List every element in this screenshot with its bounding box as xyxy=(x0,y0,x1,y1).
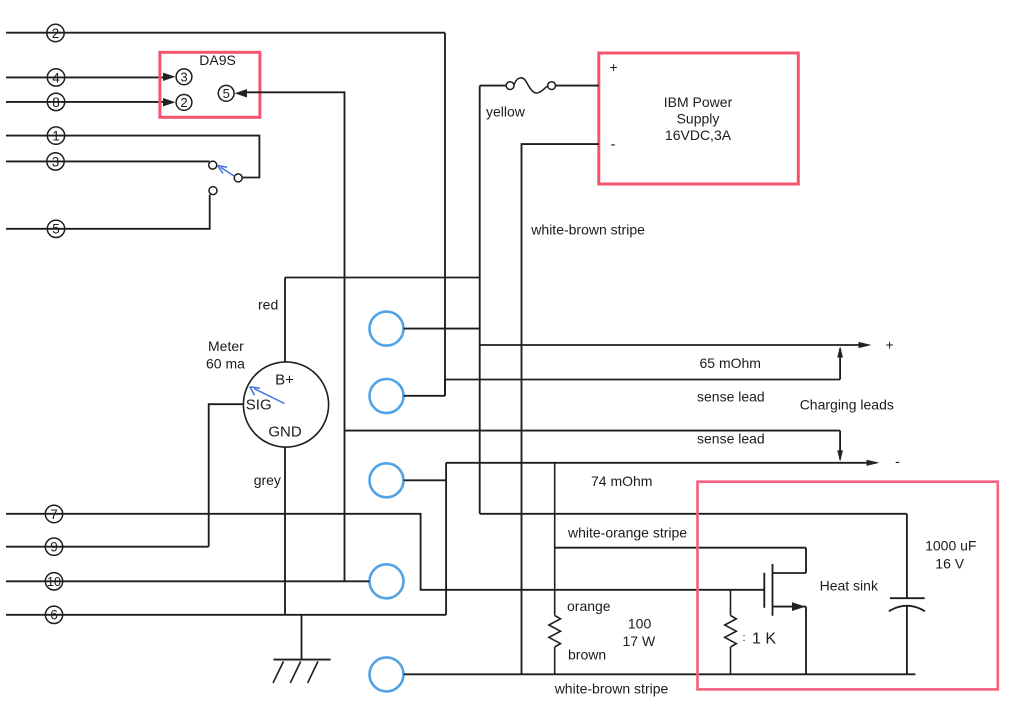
fuse right terminal circle xyxy=(548,82,556,90)
svg-text:9: 9 xyxy=(50,540,58,555)
mosfet channel bar xyxy=(772,564,774,616)
fuse element squiggle xyxy=(514,78,548,93)
svg-text:red: red xyxy=(258,296,278,312)
node terminal circle 9 xyxy=(45,538,62,555)
wire minus charging lead 74 mOhm xyxy=(446,463,876,615)
switch pole contact lower xyxy=(209,187,217,195)
node terminal circle 1 xyxy=(47,127,64,144)
svg-text:Charging leads: Charging leads xyxy=(800,396,894,412)
svg-text:white-brown stripe: white-brown stripe xyxy=(530,221,645,237)
wire supply minus white-brown down xyxy=(522,144,599,674)
svg-text:1 K: 1 K xyxy=(752,631,776,648)
arrowhead plus sense up xyxy=(837,346,843,357)
svg-text:16 V: 16 V xyxy=(935,556,964,572)
wire terminal 1 xyxy=(6,136,259,178)
fuse left terminal circle xyxy=(506,82,514,90)
svg-text:+: + xyxy=(610,59,618,75)
wire terminal 9 xyxy=(6,546,209,548)
svg-text:sense lead: sense lead xyxy=(697,389,765,405)
ground slash 1 xyxy=(273,661,284,683)
pin arrow into DA9S pin 3 xyxy=(163,73,176,81)
wire meter GND grey down xyxy=(284,448,286,615)
svg-text:3: 3 xyxy=(180,70,187,85)
ground slash 2 xyxy=(290,661,300,683)
svg-text:65 mOhm: 65 mOhm xyxy=(700,355,761,371)
wire red from meter B+ up and right xyxy=(285,278,480,362)
pin arrow into DA9S pin 5 xyxy=(235,89,248,97)
svg-text:brown: brown xyxy=(568,647,606,663)
arrowhead plus charging lead xyxy=(859,342,872,348)
terminal block circle C xyxy=(370,463,404,497)
wire plus charging lead 65 mOhm xyxy=(480,344,868,346)
switch blade blue arrow xyxy=(218,166,235,177)
switch pole contact upper xyxy=(209,161,217,169)
terminal block circle A xyxy=(370,312,404,346)
wire minus sense lead xyxy=(345,431,841,460)
capacitor top plate xyxy=(890,597,925,599)
wire terminal 3 xyxy=(6,160,210,162)
node terminal circle 10 xyxy=(45,573,62,590)
arrowhead minus sense down xyxy=(837,450,843,461)
pin circle 2 of DA9S xyxy=(176,95,192,111)
svg-text:5: 5 xyxy=(52,222,60,237)
svg-text:-: - xyxy=(611,136,616,153)
ground slash 3 xyxy=(308,661,318,683)
power supply IBM box xyxy=(599,53,799,184)
pin circle 5 of DA9S xyxy=(218,85,234,101)
ground stem wire xyxy=(301,615,303,660)
heat sink pink box xyxy=(698,482,998,690)
pin circle 3 of DA9S xyxy=(176,69,192,85)
svg-text:5: 5 xyxy=(223,86,230,101)
svg-text:sense lead: sense lead xyxy=(697,431,765,447)
wire from terminal C to minus column xyxy=(404,479,447,481)
svg-text:16VDC,3A: 16VDC,3A xyxy=(665,127,732,143)
mosfet source arrowhead xyxy=(792,602,806,611)
svg-text:yellow: yellow xyxy=(486,103,526,119)
svg-text:100: 100 xyxy=(628,616,652,632)
svg-text:8: 8 xyxy=(52,95,60,110)
svg-text:4: 4 xyxy=(52,70,60,85)
svg-text:3: 3 xyxy=(52,154,60,169)
wire terminal 6 xyxy=(6,614,446,616)
node terminal circle 6 xyxy=(45,606,62,623)
ground bar xyxy=(274,659,331,661)
wire from DA9S pin 5 to right and down xyxy=(246,92,345,581)
svg-text::: : xyxy=(743,632,746,644)
fuse right lead wire to supply plus xyxy=(556,85,599,87)
wire plus sense lead xyxy=(445,349,840,380)
svg-text:+: + xyxy=(886,337,894,353)
wire yellow vertical from fuse down xyxy=(479,86,481,514)
svg-text:7: 7 xyxy=(50,507,58,522)
connector DA9S box xyxy=(160,52,260,117)
svg-text:Meter: Meter xyxy=(208,338,244,354)
terminal block circle E xyxy=(370,657,404,691)
svg-text:GND: GND xyxy=(268,423,302,440)
arrowhead minus charging lead xyxy=(867,460,880,466)
resistor 100 ohm 17W xyxy=(549,463,561,674)
wire terminal 2 top xyxy=(6,32,445,34)
svg-text:2: 2 xyxy=(52,26,60,41)
capacitor curved plate xyxy=(889,606,925,612)
meter needle blue arrow xyxy=(250,387,285,404)
svg-text:B+: B+ xyxy=(275,372,294,389)
svg-text:60 ma: 60 ma xyxy=(206,355,245,371)
node terminal circle 5 xyxy=(47,220,64,237)
node terminal circle 7 xyxy=(45,505,62,522)
svg-text:IBM Power: IBM Power xyxy=(664,94,733,110)
svg-text:orange: orange xyxy=(567,598,611,614)
wire terminal 10 to terminal block D xyxy=(6,580,369,582)
wire meter SIG to left and down to terminal 9 xyxy=(209,404,243,547)
svg-text:white-orange stripe: white-orange stripe xyxy=(567,524,687,540)
svg-text:74 mOhm: 74 mOhm xyxy=(591,473,652,489)
fuse left lead wire xyxy=(480,85,507,87)
wire terminal 5 xyxy=(6,195,210,229)
svg-text:6: 6 xyxy=(50,608,58,623)
svg-text:Supply: Supply xyxy=(677,111,720,127)
wire white-orange stripe to mosfet drain xyxy=(555,548,806,573)
node terminal circle 4 xyxy=(47,69,64,86)
svg-text:Heat sink: Heat sink xyxy=(820,577,879,593)
capacitor bottom lead xyxy=(906,606,908,674)
node terminal circle 3 xyxy=(47,153,64,170)
svg-text:1: 1 xyxy=(52,129,60,144)
svg-text:1000 uF: 1000 uF xyxy=(925,538,976,554)
svg-text:-: - xyxy=(895,454,900,471)
terminal block circle B xyxy=(370,379,404,413)
wire from top terminal 2 down right column xyxy=(444,33,446,396)
wire terminal 8 xyxy=(6,101,166,103)
svg-text:white-brown stripe: white-brown stripe xyxy=(554,681,669,697)
switch common contact right xyxy=(234,174,242,182)
wire bottom rail white-brown stripe xyxy=(404,673,916,675)
svg-text:DA9S: DA9S xyxy=(199,52,236,68)
node terminal circle 2 xyxy=(47,24,64,41)
wire from terminal B to sense column xyxy=(404,380,445,396)
terminal block circle D xyxy=(370,564,404,598)
meter body circle xyxy=(243,362,328,447)
wire terminal 4 xyxy=(6,76,166,78)
resistor 1K xyxy=(725,590,737,675)
mosfet gate bar xyxy=(763,573,765,608)
wire from terminal A to yellow column xyxy=(404,328,480,330)
wire jog from yellow column to capacitor plus xyxy=(480,514,907,598)
svg-text:17 W: 17 W xyxy=(623,633,656,649)
pin arrow into DA9S pin 2 xyxy=(163,98,176,106)
svg-text:grey: grey xyxy=(254,472,281,488)
svg-text:2: 2 xyxy=(180,95,187,110)
svg-text:SIG: SIG xyxy=(246,397,272,414)
mosfet source wire xyxy=(773,607,807,675)
wire terminal 7 to mosfet gate xyxy=(6,514,764,590)
node terminal circle 8 xyxy=(47,93,64,110)
svg-text:10: 10 xyxy=(47,575,61,589)
